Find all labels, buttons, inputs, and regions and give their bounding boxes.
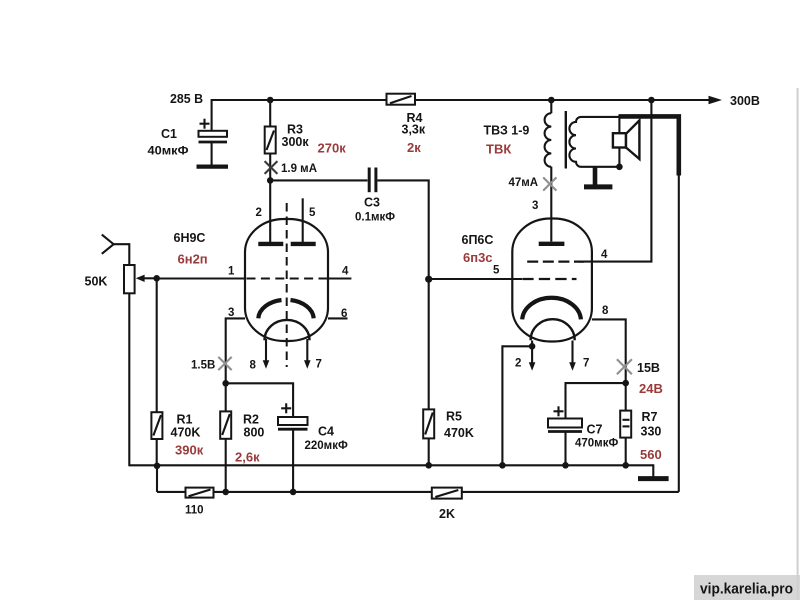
wire: R3 top lead from rail: [269, 100, 271, 127]
node: 300V arrow terminal: [709, 96, 723, 105]
capacitor C3 0.1мкФ coupling: [369, 168, 376, 193]
svg-text:300к: 300к: [282, 135, 310, 149]
tube V2 heater arrow pin 7: [569, 341, 576, 371]
tube V1 grid dashed bar: [247, 277, 329, 279]
resistor R1 470K grid leak: [151, 412, 162, 439]
wire: pot bottom lead down to ground rail: [128, 293, 130, 466]
wire: R1 top lead from wiper node: [156, 278, 158, 412]
svg-text:7: 7: [316, 359, 322, 371]
ground: chassis ground at right end of rail: [638, 464, 669, 478]
mark: X cross at R3 bottom (1.9 mA measurement): [265, 161, 278, 174]
svg-text:3,3к: 3,3к: [402, 123, 426, 137]
svg-text:C7: C7: [587, 423, 603, 437]
wire: C3 right plate to grid junction: [378, 180, 429, 279]
svg-text:ТВЗ 1-9: ТВЗ 1-9: [484, 124, 530, 138]
svg-text:800: 800: [244, 426, 265, 440]
svg-text:3: 3: [532, 200, 538, 212]
svg-text:4: 4: [342, 266, 349, 278]
svg-text:R1: R1: [177, 413, 193, 427]
wire: input jack to volume pot top: [114, 244, 130, 265]
tube V1 center divider dashed line: [286, 203, 288, 367]
node: V1 cathode node joining R2 and C4: [222, 380, 229, 387]
tube V1 heater dome: [265, 320, 310, 340]
node: R7 bottom on ground rail: [622, 462, 629, 469]
svg-text:1.5В: 1.5В: [191, 360, 215, 372]
tube V2 cathode arc: [522, 298, 581, 320]
connector: input jack: [102, 235, 114, 254]
wire: feedback line down right side to bottom rail: [678, 174, 680, 492]
wire: V1 pin 5 anode stub: [302, 198, 304, 242]
svg-text:2к: 2к: [407, 140, 421, 155]
wire: R1 bottom lead to ground rail: [156, 439, 158, 466]
svg-text:R7: R7: [642, 410, 658, 424]
tube V2 anode plate (pin 3 bar): [539, 242, 565, 246]
tube V2 heater arrow pin 2: [529, 341, 536, 371]
svg-text:5: 5: [309, 207, 316, 219]
scan artifact: grey right edge line: [797, 88, 799, 600]
wire: V1 cathode lead pin 3: [226, 318, 245, 383]
svg-text:470мкФ: 470мкФ: [575, 438, 618, 450]
wire: V1 grid stub pin 4: [328, 277, 351, 279]
feedback rail: bottom wire (rail B) left segment: [157, 491, 186, 493]
svg-text:4: 4: [601, 249, 608, 261]
ground: secondary winding chassis ground: [584, 167, 612, 187]
wire: R2 leads: [225, 383, 227, 492]
wire: link from ground rail down to feedback rail: [156, 465, 158, 492]
transformer T1 primary winding: [545, 100, 552, 167]
svg-text:7: 7: [583, 358, 589, 370]
capacitor C7 470мкФ cathode bypass: [548, 406, 582, 465]
svg-text:8: 8: [602, 305, 609, 317]
svg-text:1: 1: [228, 266, 235, 278]
wire: V1 grid line pin 1 from volume pot: [157, 277, 246, 279]
feedback rail: segment from 110 to 2K: [214, 491, 432, 493]
svg-text:2,6к: 2,6к: [235, 450, 260, 465]
tube V1 anode plate b (pin 5 bar): [291, 242, 316, 246]
svg-text:C1: C1: [161, 127, 177, 141]
feedback rail: segment from 2K to speaker line: [462, 491, 679, 493]
mark: X cross on anode lead (47 mA): [543, 177, 556, 190]
svg-text:6П6С: 6П6С: [462, 233, 494, 247]
node: C3/R5/V2 grid junction: [425, 276, 432, 283]
svg-text:C3: C3: [364, 196, 380, 210]
resistor R2 800 cathode bias: [220, 411, 231, 438]
wire: V1 cathode stub pin 6: [328, 317, 348, 319]
svg-text:50K: 50K: [85, 275, 108, 289]
mark: X cross on V2 cathode (15 V): [617, 359, 632, 374]
svg-text:285 В: 285 В: [170, 92, 203, 106]
svg-text:2: 2: [256, 207, 262, 219]
svg-text:vip.karelia.pro: vip.karelia.pro: [700, 582, 793, 598]
svg-text:40мкФ: 40мкФ: [148, 146, 189, 158]
tube V2 6П6С envelope: [512, 219, 592, 342]
svg-text:1.9 мА: 1.9 мА: [281, 163, 317, 175]
wire: V2 cathode lead pin 8: [592, 319, 626, 383]
tube V2 screen grid dashed bar (pin 4): [527, 261, 584, 263]
svg-text:0.1мкФ: 0.1мкФ: [355, 212, 395, 224]
capacitor C1 40мкФ electrolytic: [197, 119, 229, 167]
node: heater ground on ground rail: [499, 462, 506, 469]
svg-text:R2: R2: [243, 413, 259, 427]
node: R2 bottom on feedback rail: [222, 489, 229, 496]
resistor R3 300к plate load: [265, 127, 276, 154]
tube V1 6Н9С envelope: [245, 219, 328, 341]
wire: anode node to C3 left plate: [270, 179, 367, 181]
resistor 2K feedback: [432, 488, 462, 499]
svg-text:47мА: 47мА: [509, 177, 539, 189]
svg-text:2: 2: [515, 358, 521, 370]
wire: thick speaker feedback tap: [619, 116, 679, 175]
watermark background patch: [694, 575, 800, 600]
svg-text:390к: 390к: [175, 443, 204, 458]
wire: R3 bottom lead to anode node: [269, 154, 271, 181]
mark: X cross on V1 cathode (1.5 V): [218, 357, 231, 370]
node: heater tap on pin 2 lead: [529, 343, 536, 350]
wire: R5 bottom lead to ground rail: [428, 438, 430, 465]
transformer T1 core: [565, 111, 567, 169]
resistor 110 feedback divider: [186, 488, 214, 498]
svg-text:6Н9С: 6Н9С: [174, 231, 206, 245]
svg-text:2K: 2K: [439, 507, 455, 521]
wire: primary bottom lead to V2 anode pin 3: [550, 167, 552, 242]
node: rail junction feeding screen grid: [648, 97, 655, 104]
wire: V1 pin 2 anode lead: [269, 180, 271, 242]
resistor R4 3,3к supply dropper: [387, 94, 416, 105]
svg-text:5: 5: [493, 265, 500, 277]
svg-text:3: 3: [228, 307, 234, 319]
svg-text:C4: C4: [318, 425, 334, 439]
wire: +285V top supply rail: [212, 99, 709, 101]
resistor R7 330 cathode bias: [620, 383, 631, 465]
transformer T1 secondary winding: [569, 117, 619, 167]
svg-text:470K: 470K: [444, 426, 474, 440]
svg-text:270к: 270к: [318, 141, 347, 156]
node: anode node of V1a joining R3, C3 and pin 2: [267, 177, 274, 184]
tube V1 heater arrow pin 8: [263, 339, 270, 369]
svg-text:15В: 15В: [637, 361, 660, 375]
wire: grid junction to V2 pin 5: [429, 278, 522, 280]
wire: cathode node across to C4: [226, 383, 293, 417]
tube V2 control grid dashed bar (pin 5): [522, 278, 576, 280]
wire: cathode node across to C7: [566, 383, 626, 418]
svg-text:6н2п: 6н2п: [178, 252, 208, 267]
svg-text:110: 110: [185, 505, 204, 517]
node: R1 bottom on ground rail: [154, 463, 161, 470]
svg-text:R5: R5: [446, 410, 462, 424]
node: speaker bottom terminal junction: [616, 164, 623, 171]
svg-text:560: 560: [640, 447, 662, 462]
svg-text:330: 330: [641, 425, 662, 439]
svg-text:300В: 300В: [730, 94, 760, 108]
potentiometer 50K volume: [124, 265, 157, 293]
tube V1 heater arrow pin 7: [304, 339, 311, 369]
wire: R5 top lead: [428, 279, 430, 409]
ground rail: main bottom return (rail A): [129, 464, 653, 466]
wire: rail drop to C1 positive plate: [211, 99, 213, 131]
node: R5 bottom on ground rail: [425, 462, 432, 469]
tube V2 heater dome: [531, 319, 575, 340]
svg-text:8: 8: [250, 360, 257, 372]
node: C4 bottom on feedback rail: [290, 489, 297, 496]
wire: heater pin 2 to ground rail: [502, 346, 532, 465]
speaker Гр1: [613, 115, 640, 167]
tube V1 anode plate a (pin 2 bar): [258, 242, 283, 246]
node: junction of rail, R3 and C1 branch: [267, 97, 274, 104]
svg-text:6п3с: 6п3с: [463, 250, 493, 265]
capacitor C4 220мкФ cathode bypass: [278, 403, 308, 492]
svg-text:470K: 470K: [171, 426, 201, 440]
node: rail junction at transformer primary: [548, 97, 555, 104]
svg-text:6: 6: [341, 308, 347, 320]
svg-text:ТВК: ТВК: [486, 142, 511, 157]
wire: screen grid feed from rail: [579, 100, 651, 262]
node: pot wiper / grid / R1 junction: [153, 275, 160, 282]
tube V1 cathode arcs: [258, 300, 313, 318]
resistor R5 470K grid leak: [423, 409, 434, 438]
node: V2 cathode node joining R7 and C7: [622, 380, 629, 387]
svg-text:220мкФ: 220мкФ: [305, 440, 348, 452]
node: C7 bottom on ground rail: [562, 462, 569, 469]
svg-text:24В: 24В: [639, 381, 663, 396]
